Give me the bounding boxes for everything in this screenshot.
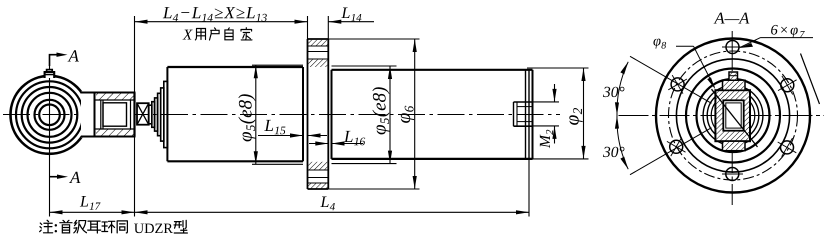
- angular dim arc lower 30deg: [617, 116, 628, 170]
- label 30deg upper: [603, 87, 624, 97]
- top cap hatched: [723, 80, 746, 90]
- circle r30: [703, 86, 763, 146]
- grease nipple on ear: [45, 70, 55, 78]
- rod end in sleeve: [100, 100, 102, 129]
- circle ring r56: [676, 59, 789, 172]
- ear section line vertical: [49, 55, 51, 217]
- bolt circle dash-dot: [669, 51, 798, 180]
- A-A centerline horizontal: [619, 115, 825, 117]
- section arrow A bottom: [50, 172, 81, 183]
- dimension phi2 rear OD: [527, 68, 589, 159]
- oil port M2: [514, 102, 533, 126]
- dimension M2 port: [533, 84, 560, 148]
- circle r26: [707, 90, 759, 142]
- middle flange: [308, 39, 329, 189]
- flange hatch areas: [308, 40, 327, 46]
- label X user defined: [183, 28, 252, 40]
- circle r36: [697, 79, 770, 152]
- dimension L14: [328, 8, 374, 24]
- radial line 30deg upper: [630, 56, 712, 103]
- tube1 seat lines phi5 e8: [252, 64, 303, 66]
- locknut X box: [137, 103, 149, 125]
- dimension phi5(e8) first: [238, 65, 258, 164]
- dimension L4: [135, 160, 530, 217]
- clevis right edge: [133, 93, 135, 137]
- circle cylinder OD: [686, 69, 780, 163]
- extension line clevis face: [134, 16, 136, 217]
- nipple tip in section: [729, 72, 738, 80]
- ear bore rect: [723, 100, 743, 130]
- bolt holes 6x phi7: [670, 41, 794, 181]
- threaded sleeve: [95, 93, 135, 137]
- ear stem lines: [81, 92, 95, 94]
- extension lines flange faces top: [307, 16, 309, 39]
- label 30deg lower: [603, 147, 624, 157]
- radial line 30deg lower: [630, 128, 712, 175]
- A-A centerline vertical: [731, 31, 733, 205]
- angular dim arc upper 30deg: [617, 62, 628, 116]
- sleeve hatch bottom: [96, 129, 134, 136]
- tube2 end cap: [526, 70, 533, 159]
- diagonal across sleeve: [712, 89, 758, 147]
- bolt hole tick marks: [667, 47, 797, 174]
- dimension L15: [258, 120, 327, 138]
- ear ring eye circles: [11, 76, 89, 154]
- title A-A: [714, 13, 750, 24]
- ear flat cut mask: [81, 91, 95, 137]
- tube 1 (first stage cylinder): [167, 67, 303, 161]
- circle r22: [711, 94, 755, 138]
- centerline main horizontal: [3, 114, 560, 116]
- dimension L17: [50, 196, 135, 214]
- break line right side: [801, 54, 820, 105]
- section arrow A top: [50, 50, 79, 66]
- flange outer circle: [656, 39, 810, 193]
- tube 2 (main cylinder body): [332, 70, 533, 159]
- dimension phi6 flange OD: [328, 39, 419, 189]
- label 6x phi7 with leader: [771, 25, 805, 38]
- sleeve hatch top: [96, 94, 134, 101]
- dimension phi5(e8) second: [372, 66, 392, 164]
- dimension L4-L14>=X>=L13: [135, 7, 308, 24]
- ear sleeve section square: [715, 90, 750, 141]
- sleeve inner lines: [95, 99, 135, 101]
- stepped cone stack: [149, 81, 168, 147]
- bottom boss hatched: [723, 141, 746, 151]
- tube2 seat lines phi5 e8: [332, 65, 397, 67]
- label phi8 with leader: [653, 39, 666, 49]
- dimension L16: [309, 131, 365, 146]
